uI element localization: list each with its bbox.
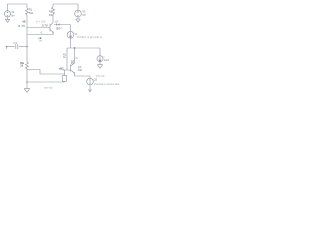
svg-text:0.7V: 0.7V xyxy=(18,24,25,28)
wire to I1 xyxy=(70,25,72,32)
wire y82 xyxy=(27,81,65,83)
wire Q3 bottom arrow xyxy=(89,85,91,91)
transistor Q1 xyxy=(50,23,53,33)
wire collector tap xyxy=(54,24,71,26)
svg-text:0.5 mA: 0.5 mA xyxy=(96,74,105,78)
svg-text:Product of gm and ro: Product of gm and ro xyxy=(77,35,103,39)
svg-text:C1: C1 xyxy=(14,41,18,45)
wire V1 top xyxy=(77,4,79,10)
wire to I2 xyxy=(99,48,101,56)
junction y82 xyxy=(26,81,28,83)
input port dot xyxy=(6,46,8,48)
voltage source V1 xyxy=(75,10,82,17)
capacitor C1 xyxy=(16,44,18,49)
wire Q1 emitter xyxy=(52,32,54,34)
wire V1 bottom xyxy=(77,17,79,19)
wire gnd column xyxy=(26,82,28,89)
wire V2 bottom xyxy=(7,17,9,19)
svg-text:V1: V1 xyxy=(82,9,86,13)
wire Q2 base link xyxy=(63,70,71,74)
wire Q2 collector feed xyxy=(66,48,68,70)
svg-text:Constant current sink: Constant current sink xyxy=(94,82,120,86)
svg-text:5m: 5m xyxy=(11,13,15,17)
svg-text:50k: 50k xyxy=(29,11,34,15)
wire Q1 collector xyxy=(52,14,54,23)
ground under I2 xyxy=(97,65,102,69)
wire Q2 emitter xyxy=(75,73,91,78)
current source I2 xyxy=(97,56,103,62)
svg-text:1mA: 1mA xyxy=(104,58,110,62)
ground under V1 xyxy=(76,19,81,22)
svg-text:iE: iE xyxy=(40,30,43,34)
wire input right xyxy=(19,46,27,48)
junction input xyxy=(26,46,28,48)
wire column emitter node xyxy=(26,28,28,63)
resistor R2 xyxy=(26,62,29,69)
bowtie marker xyxy=(56,23,59,26)
ground arrow bottom-left xyxy=(24,89,29,93)
svg-text:iD: iD xyxy=(75,56,78,60)
svg-text:vO: vO xyxy=(55,20,58,24)
svg-text:vB: vB xyxy=(22,20,25,24)
svg-text:0.5m: 0.5m xyxy=(56,26,63,30)
top rail xyxy=(53,3,78,5)
ground under V2 xyxy=(5,19,10,22)
svg-text:Q3: Q3 xyxy=(94,78,98,82)
svg-text:5V: 5V xyxy=(82,13,85,17)
output node dot xyxy=(74,47,76,49)
wire I1 bottom xyxy=(70,38,72,48)
svg-text:0.7V: 0.7V xyxy=(42,23,48,27)
wire emitter Q1 xyxy=(27,34,54,36)
wire I2 bottom xyxy=(99,62,101,65)
transistor Q3 xyxy=(87,78,94,85)
resistor RC xyxy=(52,7,55,14)
wire stair to Q2 base xyxy=(27,70,65,75)
wire base Q1 xyxy=(27,27,50,29)
svg-text:10k: 10k xyxy=(49,13,54,17)
svg-text:out v(t): out v(t) xyxy=(44,86,52,90)
transistor Q2 xyxy=(71,63,75,73)
wire out rail xyxy=(67,47,100,49)
wire V2 top to rail xyxy=(8,4,28,11)
wire input left xyxy=(7,46,15,48)
resistor R1 xyxy=(26,4,28,28)
resistor box RB xyxy=(64,74,66,82)
svg-text:100: 100 xyxy=(78,68,83,72)
voltage source V2 xyxy=(4,11,10,17)
wire Q2 collector lead xyxy=(74,48,76,63)
current source I1 xyxy=(67,31,74,38)
